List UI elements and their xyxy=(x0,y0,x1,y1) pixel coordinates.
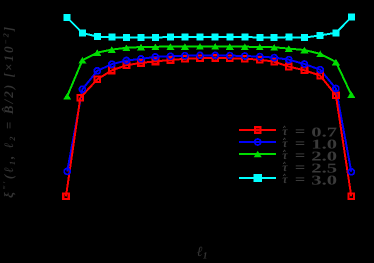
legend entry tau=2.0 : green line + filled triangle xyxy=(239,153,276,155)
legend entry tau=1.0 : blue line + open circle xyxy=(239,141,276,143)
legend entry tau=0.7 : red line + open square xyxy=(239,129,276,131)
curve tau=3.0 : cyan line xyxy=(67,17,351,37)
curve tau=2.0 : green filled-triangle markers xyxy=(63,93,71,100)
legend entry tau=2.5 : black line (invisible on black background) xyxy=(239,165,276,167)
curve tau=1.0 : blue line xyxy=(67,55,351,171)
legend entry tau=3.0 : cyan line + filled square xyxy=(239,177,276,179)
curve tau=0.7 : red open-square markers xyxy=(63,194,69,200)
svg-text:=: = xyxy=(295,172,305,187)
svg-text:3.0: 3.0 xyxy=(311,172,337,187)
curve tau=3.0 : cyan filled-square markers xyxy=(64,14,71,21)
svg-text:τ: τ xyxy=(282,172,288,186)
curve tau=1.0 : blue open-circle markers xyxy=(64,168,70,174)
svg-text:ξ‴′(ℓ1, ℓ2 = B̂/2) [×10−2]: ξ‴′(ℓ1, ℓ2 = B̂/2) [×10−2] xyxy=(1,25,17,198)
curve tau=2.0 : green line xyxy=(67,46,351,96)
curve tau=0.7 : red line xyxy=(66,58,351,196)
